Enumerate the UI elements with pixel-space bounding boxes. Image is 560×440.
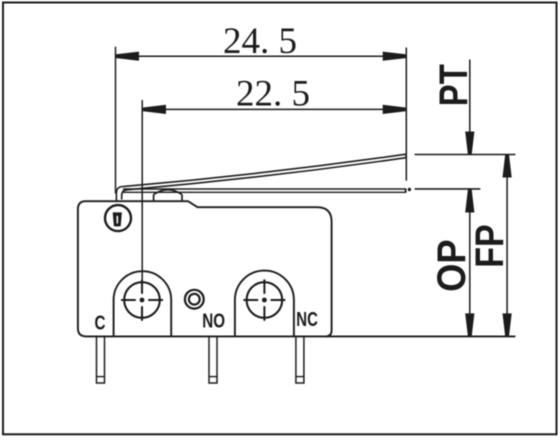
PT dimension line <box>469 60 471 155</box>
svg-text:FP: FP <box>468 224 512 268</box>
PT arrowhead up (below OP line) <box>465 190 474 213</box>
svg-text:PT: PT <box>432 64 476 106</box>
terminal boss NC dome <box>235 271 294 337</box>
rivet circle top-left <box>105 205 131 231</box>
rivet pin <box>113 212 122 226</box>
terminal pin C <box>97 336 105 383</box>
crosshair lines NC <box>243 299 258 301</box>
arrowhead 24.5 left <box>116 52 139 61</box>
lever hook inner edge <box>122 190 128 200</box>
crosshair lines C <box>121 299 136 301</box>
phantom line dot <box>408 188 411 191</box>
lever hook outer edge <box>116 187 123 201</box>
svg-text:22. 5: 22. 5 <box>236 73 310 114</box>
terminal pin NO <box>209 336 217 383</box>
extension line middle (pivot centerline down to terminal center) <box>141 100 143 279</box>
plunger dome arc <box>154 190 182 195</box>
lever pressed position bottom edge <box>123 191 405 193</box>
dimension line 24.5 <box>116 55 406 57</box>
svg-text:C: C <box>95 313 106 335</box>
PT arrowhead down <box>465 132 474 155</box>
dimension line 22.5 <box>143 108 406 110</box>
extension line left (lever end) <box>115 47 117 194</box>
lever pressed position top edge <box>123 188 405 190</box>
reference line operating position <box>415 188 481 190</box>
arrowhead 24.5 right <box>383 52 406 61</box>
baseline (mounting reference) <box>326 335 516 337</box>
plunger button right side <box>181 195 183 202</box>
extension line right (lever tip) <box>405 48 407 181</box>
lever tip end cap <box>405 154 407 159</box>
OP dimension line <box>469 189 471 336</box>
lever pressed end cap <box>405 188 407 193</box>
svg-text:NC: NC <box>296 309 318 331</box>
arrowhead 22.5 right <box>383 105 406 114</box>
lever free position top edge <box>124 154 407 186</box>
crosshair circle NC <box>247 282 283 318</box>
FP arrowhead down <box>503 313 512 336</box>
terminal boss C dome <box>114 271 172 336</box>
OP arrowhead down <box>465 313 474 336</box>
svg-text:NO: NO <box>202 310 225 332</box>
plunger button left side <box>153 195 155 202</box>
small ring (mounting hole) <box>185 290 204 309</box>
lever free position bottom edge <box>127 158 406 190</box>
FP dimension line <box>506 155 508 337</box>
reference line free position <box>415 154 516 156</box>
crosshair circle C <box>124 282 160 318</box>
FP arrowhead up <box>503 155 512 178</box>
switch body outline <box>78 201 332 336</box>
arrowhead 22.5 left <box>143 105 166 114</box>
terminal pin NC <box>296 336 304 383</box>
